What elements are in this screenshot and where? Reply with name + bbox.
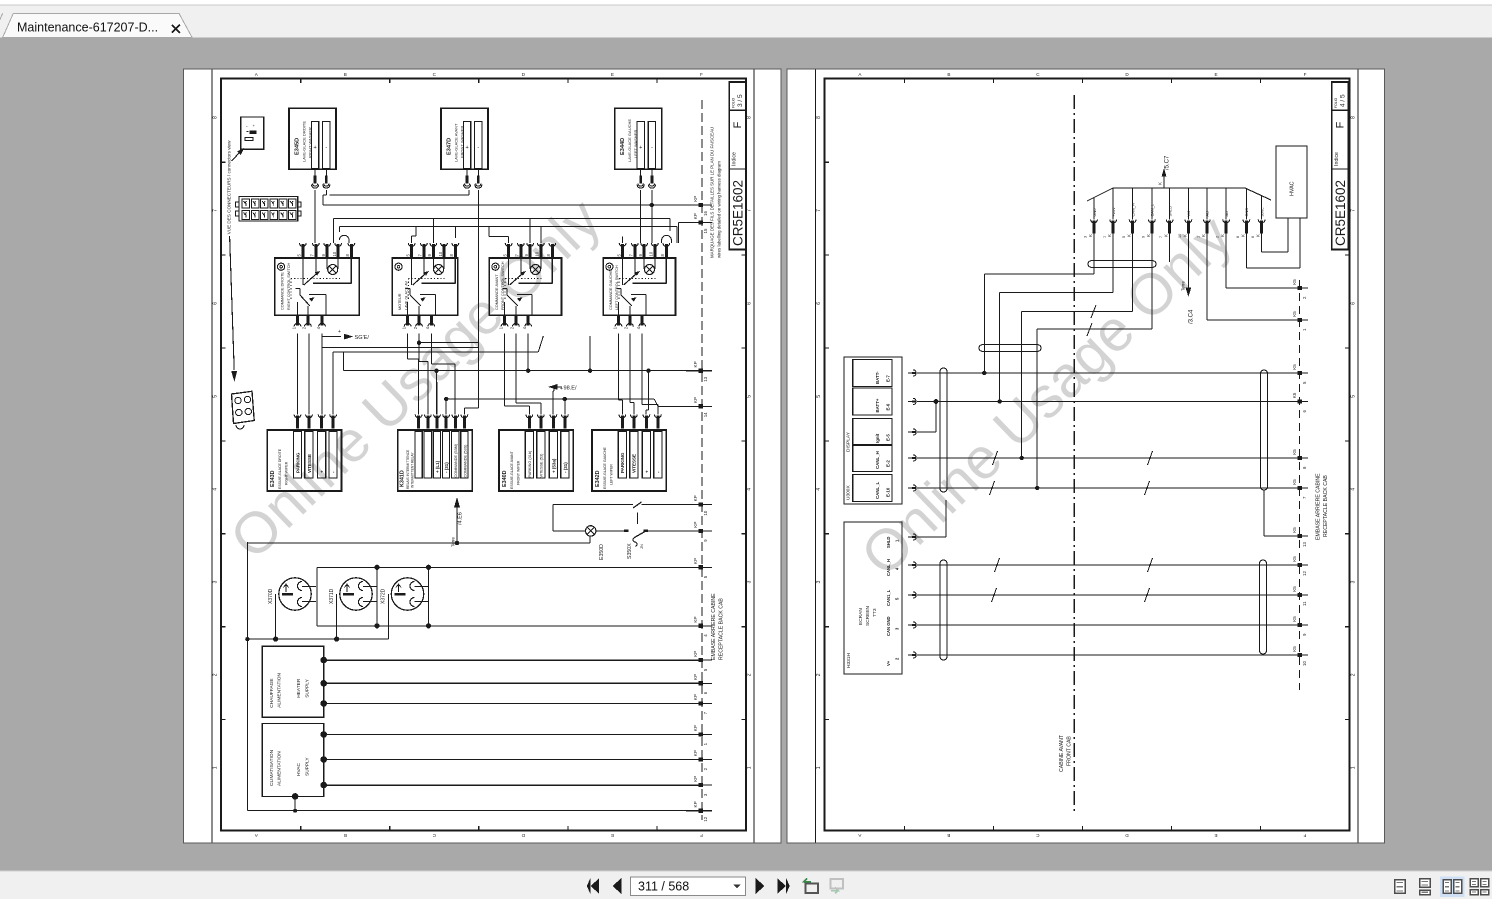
- connector stub KP pin 15: [686, 213, 712, 233]
- svg-text:3: 3: [747, 580, 753, 583]
- svg-text:-: -: [477, 145, 479, 151]
- svg-text:X370D: X370D: [268, 588, 274, 604]
- svg-text:KP: KP: [693, 750, 698, 756]
- svg-text:PARKING (31b): PARKING (31b): [528, 450, 532, 477]
- svg-text:KP: KP: [693, 397, 698, 403]
- svg-text:K5: K5: [1292, 586, 1297, 592]
- svg-text:1: 1: [1350, 766, 1356, 769]
- svg-text:2: 2: [747, 673, 753, 676]
- control switch at x=275: [275, 243, 360, 329]
- connector stub K5 pin 7: [1280, 479, 1308, 499]
- svg-text:ECRAN: ECRAN: [858, 608, 864, 625]
- svg-text:13: 13: [703, 376, 708, 381]
- wire screen to K5 pin 9: [917, 624, 1280, 626]
- svg-text:K: K: [1127, 234, 1132, 237]
- wire SHLD drain: [1169, 231, 1171, 262]
- svg-text:BATT+: BATT+: [875, 398, 880, 412]
- svg-text:S350X: S350X: [627, 543, 633, 559]
- wire harness to display: [998, 231, 1114, 404]
- svg-text:7: 7: [747, 209, 753, 212]
- svg-text:8: 8: [1350, 116, 1356, 119]
- svg-text:K: K: [1164, 234, 1169, 237]
- svg-text:TT3: TT3: [872, 608, 878, 617]
- washer pump E344D: [615, 108, 662, 188]
- svg-text:5: 5: [213, 395, 219, 398]
- label VUE DES CONNECTEURS: [227, 140, 232, 234]
- wire to K5 pin13: [1264, 490, 1280, 536]
- svg-text:E-7: E-7: [886, 375, 891, 382]
- wire B3 pin1 to E340D col1: [505, 334, 530, 415]
- svg-text:3: 3: [1084, 236, 1088, 238]
- svg-text:VITESSE: VITESSE: [307, 454, 312, 473]
- svg-text:1: 1: [1103, 236, 1107, 238]
- svg-text:6: 6: [1350, 302, 1356, 305]
- connector stub KP pin 3: [686, 776, 712, 796]
- svg-text:7: 7: [213, 209, 219, 212]
- wire B1 pin1 to E343D PARKING: [297, 334, 299, 415]
- connector stub KP pin 5: [686, 558, 712, 578]
- svg-text:2: 2: [816, 673, 822, 676]
- svg-text:K5: K5: [1292, 527, 1297, 533]
- svg-text:3: 3: [816, 580, 822, 583]
- svg-text:E344D: E344D: [620, 138, 626, 155]
- harness pin CAN_H: [1122, 188, 1136, 238]
- svg-text:2: 2: [1350, 673, 1356, 676]
- svg-text:1: 1: [747, 766, 753, 769]
- wire B2 pin2 to relay col2: [419, 334, 428, 415]
- wire bus KP14 ground net: [444, 397, 702, 415]
- wire Ignit to BATT+ junction: [917, 399, 938, 432]
- connector stub K5 pin 10: [1280, 646, 1308, 666]
- harness pin 30VL: [1251, 196, 1265, 238]
- svg-text:FRONT CAB: FRONT CAB: [1067, 736, 1073, 766]
- svg-text:B: B: [344, 72, 347, 77]
- wire E345D to E347D link: [329, 190, 468, 195]
- svg-text:COMMANDE (53S): COMMANDE (53S): [463, 444, 467, 478]
- svg-text:5: 5: [1122, 236, 1126, 238]
- screen connector H331H: [844, 522, 916, 674]
- svg-text:COMMANDE AVANT: COMMANDE AVANT: [495, 274, 499, 310]
- svg-text:E: E: [1214, 72, 1217, 77]
- svg-text:10: 10: [438, 251, 443, 256]
- ground reference /3.B6 arrow: [549, 384, 577, 414]
- wire GND to HVAC: [1246, 218, 1300, 268]
- wire AU1 to K5 pin1: [1207, 231, 1280, 320]
- svg-text:6: 6: [213, 302, 219, 305]
- svg-text:CANL_L: CANL_L: [875, 481, 880, 499]
- svg-text:K5: K5: [1292, 646, 1297, 652]
- shield oval screen right: [1259, 560, 1266, 654]
- svg-text:LAVE-GLACE GAUCHE: LAVE-GLACE GAUCHE: [627, 119, 632, 162]
- svg-text:COMMANDE GAUCHE: COMMANDE GAUCHE: [609, 270, 613, 310]
- harness pin AU: [1196, 188, 1210, 238]
- motor X371D: [329, 578, 377, 610]
- wire B4 pin2 to E342D col2: [630, 334, 634, 415]
- connector stub KP pin 13: [686, 361, 712, 381]
- svg-text:K341D: K341D: [400, 470, 406, 487]
- svg-text:E342D: E342D: [595, 470, 601, 487]
- svg-text:7: 7: [1159, 236, 1163, 238]
- svg-text:/5.C7: /5.C7: [1165, 155, 1171, 170]
- wire display to K5 pin 7: [917, 487, 1280, 489]
- svg-text:4: 4: [213, 488, 219, 491]
- svg-text:E345D: E345D: [295, 138, 301, 155]
- wire E344D stubs down to switch B4: [641, 190, 652, 243]
- svg-text:1: 1: [816, 766, 822, 769]
- svg-text:+: +: [644, 470, 649, 473]
- switch S350X lower pole: [596, 529, 702, 559]
- wire KP15 stub link: [679, 223, 702, 244]
- svg-text:DISPLAY: DISPLAY: [846, 431, 852, 452]
- svg-text:FOLIO: FOLIO: [732, 97, 736, 108]
- svg-text:5: 5: [1350, 395, 1356, 398]
- svg-text:GND: GND: [1244, 208, 1249, 217]
- svg-text:RECEPTACLE BACK CAB: RECEPTACLE BACK CAB: [719, 598, 725, 660]
- wire B3 pin4 riser: [526, 334, 530, 373]
- wire relay col3 stub: [436, 382, 438, 415]
- washer pump E347D: [441, 108, 488, 188]
- arrow to lower connector view: [230, 236, 237, 381]
- svg-text:V+: V+: [886, 660, 891, 666]
- svg-text:+: +: [465, 145, 468, 151]
- svg-text:VITESSE: VITESSE: [632, 454, 637, 473]
- svg-text:E-6: E-6: [886, 403, 891, 410]
- svg-text:K5: K5: [1292, 364, 1297, 370]
- svg-text:- (31): - (31): [444, 462, 449, 473]
- connector stub KP pin 1: [686, 725, 712, 745]
- wire motor ground bus y639: [247, 594, 388, 642]
- wire E347D- down to relay K341D: [417, 190, 479, 415]
- shield oval display left: [940, 368, 947, 492]
- svg-text:SHLD: SHLD: [1168, 206, 1173, 217]
- wire screen to K5 pin 10: [917, 654, 1280, 656]
- wire harness to display: [1035, 231, 1152, 490]
- wire AU2 to K5 pin2: [1226, 231, 1280, 288]
- svg-text:CABINE AVANT: CABINE AVANT: [1059, 734, 1065, 772]
- svg-text:1: 1: [213, 766, 219, 769]
- harness pin GND: [1236, 189, 1250, 238]
- shield oval lower bundle: [979, 345, 1041, 352]
- svg-text:COMMANDE (53M): COMMANDE (53M): [454, 443, 458, 477]
- connector view round receptacle: [232, 391, 255, 429]
- connector stub K5 pin 2: [1280, 279, 1308, 299]
- svg-text:+24V: +24V: [1111, 207, 1116, 217]
- svg-text:+: +: [313, 145, 316, 151]
- svg-text:E350D: E350D: [599, 544, 605, 560]
- wire crossing slashes display: [990, 305, 1153, 495]
- svg-text:4 / 5: 4 / 5: [1340, 94, 1347, 107]
- svg-text:- (31): - (31): [563, 462, 568, 473]
- svg-text:RIGHT CONTROL SWITCH: RIGHT CONTROL SWITCH: [287, 262, 291, 310]
- svg-text:K: K: [1220, 234, 1225, 237]
- svg-text:CR5E1602: CR5E1602: [731, 180, 746, 246]
- svg-text:Indice: Indice: [731, 152, 737, 166]
- svg-text:X371D: X371D: [329, 588, 335, 604]
- svg-text:K5: K5: [1292, 556, 1297, 562]
- wire harness to display: [982, 231, 1094, 375]
- connector stub KP pin 9: [686, 522, 712, 542]
- svg-text:HEATER: HEATER: [296, 678, 302, 698]
- svg-text:EMBASE ARRIERE CABINE: EMBASE ARRIERE CABINE: [711, 593, 717, 660]
- svg-text:HVAC: HVAC: [1290, 181, 1296, 196]
- harness pin V/J: [1178, 188, 1192, 238]
- svg-text:B: B: [947, 833, 950, 838]
- svg-text:10: 10: [703, 510, 708, 515]
- svg-text:F: F: [1304, 72, 1307, 77]
- svg-text:KP: KP: [693, 196, 698, 202]
- svg-text:8: 8: [1236, 236, 1240, 238]
- svg-text:LAVE-GLACE DROITE: LAVE-GLACE DROITE: [302, 121, 307, 162]
- svg-text:6: 6: [816, 302, 822, 305]
- svg-text:K: K: [1182, 234, 1187, 237]
- svg-text:Indice: Indice: [1334, 152, 1340, 166]
- svg-text:MOTEUR: MOTEUR: [398, 293, 402, 310]
- wire hvac ground to bottom bus: [247, 793, 701, 813]
- svg-text:PARKING: PARKING: [620, 452, 625, 473]
- svg-text:4: 4: [747, 488, 753, 491]
- svg-text:CANL_H: CANL_H: [886, 559, 891, 576]
- svg-text:K5: K5: [1292, 311, 1297, 317]
- ground reference Terre /3.C4: [1181, 231, 1195, 324]
- svg-text:K: K: [1107, 234, 1112, 237]
- wire 30VL to HVAC: [1262, 218, 1288, 252]
- wire E345D- down to switch B1 pin7: [314, 190, 316, 243]
- svg-text:KP: KP: [693, 495, 698, 501]
- svg-text:10: 10: [649, 251, 654, 256]
- svg-text:CAN1_L: CAN1_L: [886, 589, 891, 606]
- wire harness to display: [1020, 231, 1133, 460]
- control switch at x=392: [392, 243, 459, 329]
- switch S350X upper pole: [553, 502, 702, 531]
- svg-text:SUPPLY: SUPPLY: [305, 757, 311, 776]
- wire hop bridge near B1: [339, 235, 349, 243]
- connector stub KP pin 16: [686, 196, 712, 216]
- svg-text:LEFT WIPER: LEFT WIPER: [609, 464, 613, 485]
- svg-text:BATT-: BATT-: [875, 371, 880, 384]
- svg-text:COMMANDE DROITE: COMMANDE DROITE: [281, 272, 285, 310]
- svg-text:K5: K5: [1292, 616, 1297, 622]
- svg-text:2: 2: [213, 673, 219, 676]
- svg-text:12: 12: [1302, 571, 1307, 576]
- svg-text:CAN_L: CAN_L: [1150, 203, 1155, 216]
- wire B4 pin1 to E342D col1: [619, 334, 623, 415]
- connector stub K5 pin 9: [1280, 616, 1308, 636]
- svg-text:16: 16: [703, 211, 708, 216]
- svg-text:RECEPTACLE BACK CAB: RECEPTACLE BACK CAB: [1323, 475, 1329, 537]
- svg-text:Maintenance-617207-D...: Maintenance-617207-D...: [17, 21, 158, 35]
- svg-text:3 / 5: 3 / 5: [737, 94, 744, 107]
- svg-text:KP: KP: [693, 522, 698, 528]
- svg-text:CLIMATISATION: CLIMATISATION: [269, 749, 275, 786]
- connector stub K5 pin 6: [1280, 392, 1308, 412]
- svg-text:CANL_H: CANL_H: [875, 451, 880, 469]
- connector stub KP pin 6: [686, 674, 712, 694]
- wire display to K5 pin 6: [917, 401, 1280, 403]
- svg-text:RIGHT WIPER: RIGHT WIPER: [285, 461, 289, 485]
- svg-text:KP: KP: [693, 651, 698, 657]
- svg-text:KP: KP: [693, 361, 698, 367]
- svg-text:H331H: H331H: [846, 653, 852, 668]
- label EMBASE ARRIERE CABINE right page: [1316, 473, 1330, 540]
- svg-text:HVAC: HVAC: [296, 762, 302, 776]
- svg-text:CHAUFFAGE: CHAUFFAGE: [269, 678, 275, 707]
- svg-text:12: 12: [703, 816, 708, 821]
- wire B2 pin1 to relay col1: [408, 334, 419, 415]
- wire motor rails: [317, 565, 702, 629]
- svg-text:AU: AU: [1224, 211, 1229, 217]
- connector stub K5 pin 1: [1280, 311, 1308, 331]
- svg-text:4: 4: [816, 488, 822, 491]
- svg-text:U300X: U300X: [846, 485, 852, 500]
- wire B3 pin2 to E340D col2: [516, 334, 541, 415]
- HVAC unit: [1276, 146, 1307, 218]
- connector stub K5 pin 5: [1280, 364, 1308, 384]
- connector stub KP pin 12: [686, 801, 712, 821]
- svg-text:K: K: [1240, 234, 1245, 237]
- svg-text:10: 10: [332, 251, 337, 256]
- wire crossing slashes screen: [992, 558, 1153, 602]
- svg-text:11: 11: [1302, 601, 1307, 606]
- receptacle dashed line right page: [1299, 280, 1301, 690]
- svg-text:E343D: E343D: [270, 470, 276, 487]
- svg-text:10: 10: [1178, 234, 1182, 238]
- svg-text:F: F: [732, 121, 744, 128]
- harness pin +24V: [1103, 188, 1117, 238]
- svg-text:RELAIS INTERMITTENCE: RELAIS INTERMITTENCE: [406, 449, 410, 489]
- connector stub K5 pin 12: [1280, 556, 1308, 576]
- svg-text:V/J: V/J: [1186, 211, 1191, 217]
- svg-text:E347D: E347D: [447, 138, 453, 155]
- wiper motor unit E342D: [592, 415, 666, 492]
- svg-text:ALIMENTATION: ALIMENTATION: [277, 751, 283, 786]
- svg-text:+: +: [639, 145, 642, 151]
- lamp E350D: [553, 526, 605, 560]
- harness pin CAN_L: [1141, 188, 1155, 238]
- net boundary dash-dot line FRONT CAB: [1073, 95, 1075, 815]
- label EMBASE ARRIERE CABINE left page: [711, 593, 725, 660]
- connector view 12-pin receptacle: [236, 197, 302, 222]
- svg-text:KP: KP: [693, 616, 698, 622]
- wire top bus h5: [339, 227, 677, 244]
- svg-text:CAN GND: CAN GND: [886, 616, 891, 636]
- svg-text:K5: K5: [1292, 279, 1297, 285]
- wire display to K5 pin 8: [917, 457, 1280, 459]
- svg-text:X372D: X372D: [381, 588, 387, 604]
- shield oval screen left: [940, 560, 947, 660]
- svg-text:ESSUIE-GLACE GAUCHE: ESSUIE-GLACE GAUCHE: [603, 447, 607, 489]
- svg-text:LAVE-GLACE AVANT: LAVE-GLACE AVANT: [454, 123, 459, 162]
- svg-text:ALIMENTATION: ALIMENTATION: [277, 673, 283, 708]
- svg-text:2: 2: [1216, 236, 1220, 238]
- connector stub KP pin 2: [686, 750, 712, 770]
- title block CR5E1602 folio 4 / 5: [1332, 82, 1349, 250]
- washer pump E345D: [289, 108, 336, 188]
- wire E345D+ to KP16 bus: [323, 190, 702, 207]
- wire SHLD drain H331H: [917, 500, 946, 537]
- svg-text:CR5E1602: CR5E1602: [1333, 180, 1348, 246]
- connector stub KP pin 14: [686, 397, 712, 417]
- svg-text:7: 7: [816, 209, 822, 212]
- control switch at x=603: [603, 243, 675, 329]
- svg-text:VUE DES CONNECTEURS / connecto: VUE DES CONNECTEURS / connectors view: [227, 140, 232, 234]
- svg-text:E340D: E340D: [502, 470, 508, 487]
- connector stub KP pin 5: [686, 651, 712, 671]
- svg-text:JN: JN: [639, 544, 644, 549]
- svg-text:KP: KP: [693, 674, 698, 680]
- svg-text:E: E: [1214, 833, 1217, 838]
- svg-text:30VL: 30VL: [1259, 207, 1264, 217]
- wire display to K5 pin 5: [917, 372, 1280, 374]
- svg-text:15: 15: [703, 228, 708, 233]
- wire B2 pin4 to relay col5: [431, 334, 455, 415]
- svg-text:13: 13: [1302, 542, 1307, 547]
- svg-text:+ (L1): + (L1): [435, 460, 440, 473]
- svg-text:B: B: [947, 72, 950, 77]
- svg-text:3: 3: [1350, 580, 1356, 583]
- wire bus y352 E343D minus: [333, 336, 544, 415]
- wire ground bus y543: [247, 536, 590, 543]
- connector stub K5 pin 8: [1280, 449, 1308, 469]
- svg-text:SUPPLY: SUPPLY: [305, 678, 311, 697]
- svg-text:F: F: [1335, 121, 1347, 128]
- svg-text:wires labelling detailed on wi: wires labelling detailed on wiring harne…: [717, 161, 722, 258]
- svg-text:F: F: [700, 833, 703, 838]
- svg-text:ESSUIE-GLACE DROITE: ESSUIE-GLACE DROITE: [278, 448, 282, 489]
- ground reference SG arrow: [322, 329, 369, 341]
- shield oval upper bundle: [1088, 261, 1156, 268]
- svg-text:14: 14: [703, 412, 708, 417]
- svg-text:MARQUAGE DES FILS DETAILLES SU: MARQUAGE DES FILS DETAILLES SUR LE PLAN …: [710, 127, 715, 258]
- svg-text:FRONT WIPER: FRONT WIPER: [516, 460, 520, 485]
- svg-text:3: 3: [213, 580, 219, 583]
- svg-text:/3.C4: /3.C4: [1189, 309, 1195, 324]
- svg-text:6: 6: [747, 302, 753, 305]
- connector stub KP pin 7: [686, 694, 712, 714]
- svg-text:ESSUIE-GLACE AVANT: ESSUIE-GLACE AVANT: [510, 450, 514, 489]
- svg-text:E-2: E-2: [886, 460, 891, 467]
- svg-text:1: 1: [1196, 236, 1200, 238]
- svg-text:Ignit: Ignit: [875, 433, 880, 443]
- wire top bus h4: [334, 219, 670, 244]
- svg-text:SG'E/: SG'E/: [355, 335, 370, 341]
- svg-text:8: 8: [816, 116, 822, 119]
- svg-text:-: -: [325, 145, 327, 151]
- net boundary dashed line (back cab receptacle) left page: [701, 100, 703, 820]
- harness pin AU: [1216, 188, 1230, 238]
- svg-text:KP: KP: [693, 725, 698, 731]
- svg-text:K: K: [1201, 234, 1206, 237]
- svg-text:GN0: GN0: [1092, 208, 1097, 217]
- wire hop bridge near B4: [662, 235, 672, 243]
- svg-text:KP: KP: [693, 776, 698, 782]
- svg-text:5: 5: [747, 395, 753, 398]
- svg-text:CAN_H: CAN_H: [1130, 203, 1135, 216]
- svg-text:K5: K5: [1292, 449, 1297, 455]
- svg-text:KP: KP: [693, 801, 698, 807]
- svg-text:AU: AU: [1205, 211, 1210, 217]
- supply block hvac: [262, 724, 701, 797]
- svg-text:K5: K5: [1292, 479, 1297, 485]
- svg-text:K: K: [1158, 182, 1163, 185]
- svg-text:+: +: [338, 329, 341, 335]
- wire bus KP13 parking net: [344, 336, 702, 415]
- display connector U300X: [844, 357, 916, 504]
- connector stub K5 pin 13: [1280, 527, 1308, 547]
- svg-text:Terre: Terre: [1181, 280, 1186, 291]
- harness pin GN0: [1084, 198, 1098, 239]
- svg-text:E-5: E-5: [886, 434, 891, 441]
- svg-text:Terre: Terre: [451, 536, 456, 547]
